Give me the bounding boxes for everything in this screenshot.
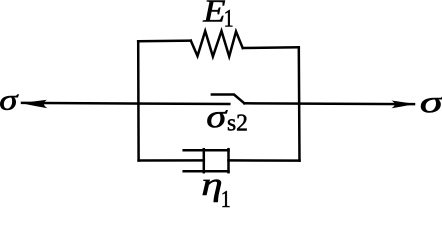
svg-text:σ: σ bbox=[0, 84, 19, 117]
svg-text:1: 1 bbox=[221, 185, 231, 208]
svg-text:1: 1 bbox=[224, 4, 234, 32]
svg-text:η: η bbox=[201, 167, 222, 203]
svg-text:σ: σ bbox=[206, 98, 228, 135]
svg-text:σ: σ bbox=[420, 84, 442, 119]
svg-text:E: E bbox=[202, 0, 225, 29]
svg-text:s2: s2 bbox=[227, 110, 248, 137]
